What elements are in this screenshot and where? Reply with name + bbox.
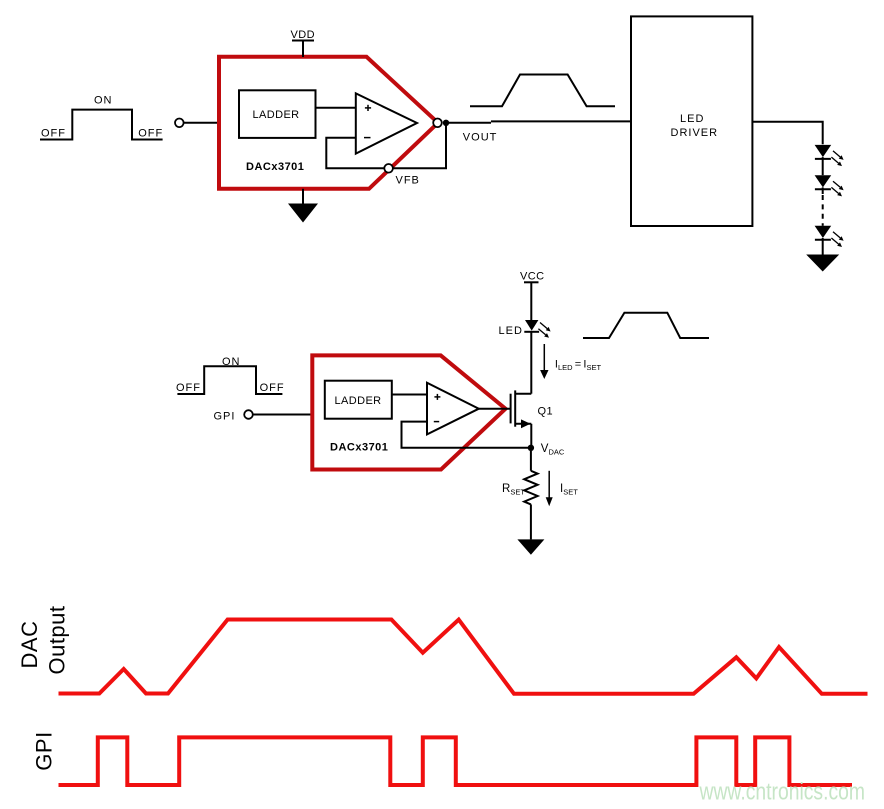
svg-text:DRIVER: DRIVER [671,127,719,139]
svg-text:OFF: OFF [41,127,66,139]
label DAC Output (rotated) [17,605,70,674]
output terminal circle (VOUT pin) [433,119,442,128]
dashed wire (additional LEDs) [822,187,824,225]
svg-text:ON: ON [94,95,113,107]
node VDAC junction dot [528,445,534,451]
label ISET [560,483,578,497]
VCC trapezoid waveform [583,313,709,338]
LED D1 [815,145,844,166]
ground (RSET) [517,539,544,554]
VFB terminal circle [384,164,393,173]
svg-text:OFF: OFF [176,382,201,394]
wire D1 to D2 [822,157,824,175]
wire LADDER to op-amp + input (U2) [392,394,427,396]
label ON (middle) [222,356,241,368]
DACx3701 block outline U2 [312,355,505,469]
ground (DAC U1) [288,189,318,223]
label VFB [396,174,420,186]
svg-text:VFB: VFB [396,174,420,186]
LADDER block (U2) [325,381,392,419]
resistor RSET [524,451,537,540]
svg-text:LADDER: LADDER [335,395,382,407]
svg-text:DACx3701: DACx3701 [246,161,304,173]
label ON (top) [94,95,113,107]
GPI logic waveform OFF/ON/OFF (middle) [177,366,282,394]
svg-text:LADDER: LADDER [253,109,300,121]
svg-text:VOUT: VOUT [463,132,498,144]
input terminal circle (top) [175,119,184,128]
label DACx3701 (U1) [246,161,304,173]
svg-text:OFF: OFF [138,127,163,139]
svg-text:Q1: Q1 [538,406,553,418]
svg-text:DACx3701: DACx3701 [330,442,388,454]
svg-text:GPI: GPI [31,731,56,770]
watermark www.cntronics.com [699,779,865,806]
svg-text:www.cntronics.com: www.cntronics.com [699,779,865,806]
label LED DRIVER [671,113,719,139]
label VOUT [463,132,498,144]
svg-text:Output: Output [44,605,69,674]
label OFF right (middle) [260,382,285,394]
label GPI [214,410,236,422]
VCC supply symbol [520,271,544,321]
label LADDER (U1) [253,109,300,121]
DACx3701 block outline U1 [219,57,438,189]
op-amp A2 [427,383,479,435]
wire op-amp output to gate [479,408,510,410]
label LED [499,325,523,337]
wire LADDER to op-amp + input [316,107,356,109]
svg-text:DAC: DAC [17,621,42,669]
svg-text:ON: ON [222,356,241,368]
label VDAC [541,443,565,457]
LED DRIVER block [631,16,752,226]
GPI waveform (red) [59,737,853,785]
label OFF right (top) [138,127,163,139]
LED D4 [524,320,550,338]
svg-text:GPI: GPI [214,410,236,422]
op-amp A1 [356,93,417,153]
label LADDER (U2) [335,395,382,407]
DAC Output waveform (red) [59,620,868,694]
svg-text:LED: LED [499,325,523,337]
label Q1 [538,406,553,418]
VOUT trapezoid waveform [470,75,615,107]
label GPI (rotated) [31,731,56,770]
LED D2 [815,175,844,196]
label DACx3701 (U2) [330,442,388,454]
node VOUT junction dot [443,120,449,126]
wire LED DRIVER to LED string [752,122,822,145]
LADDER block (U1) [239,90,316,138]
LED D3 [815,226,844,247]
label ILED = ISET [555,359,602,372]
svg-text:LED: LED [680,113,704,125]
transistor Q1 (NMOS) [511,332,532,448]
ground (LED string) [806,255,839,272]
GPI terminal circle [244,410,253,419]
feedback wire VDAC to op-amp - input [402,422,531,448]
input logic waveform OFF/ON/OFF (top) [40,110,163,140]
label OFF left (middle) [176,382,201,394]
VDD supply symbol [291,29,315,57]
svg-text:VCC: VCC [520,271,544,283]
feedback wire VOUT to VFB to op-amp - input [326,123,446,168]
svg-text:OFF: OFF [260,382,285,394]
label OFF left (top) [41,127,66,139]
svg-text:VDD: VDD [291,29,315,41]
wire VOUT to LED DRIVER [449,121,631,122]
label RSET [502,483,525,497]
wire input terminal to DAC block [184,122,218,124]
wire D3 to ground [822,238,824,255]
current arrow ISET [546,471,553,507]
current arrow ILED [540,344,548,379]
wire GPI terminal to DAC block [253,414,311,416]
